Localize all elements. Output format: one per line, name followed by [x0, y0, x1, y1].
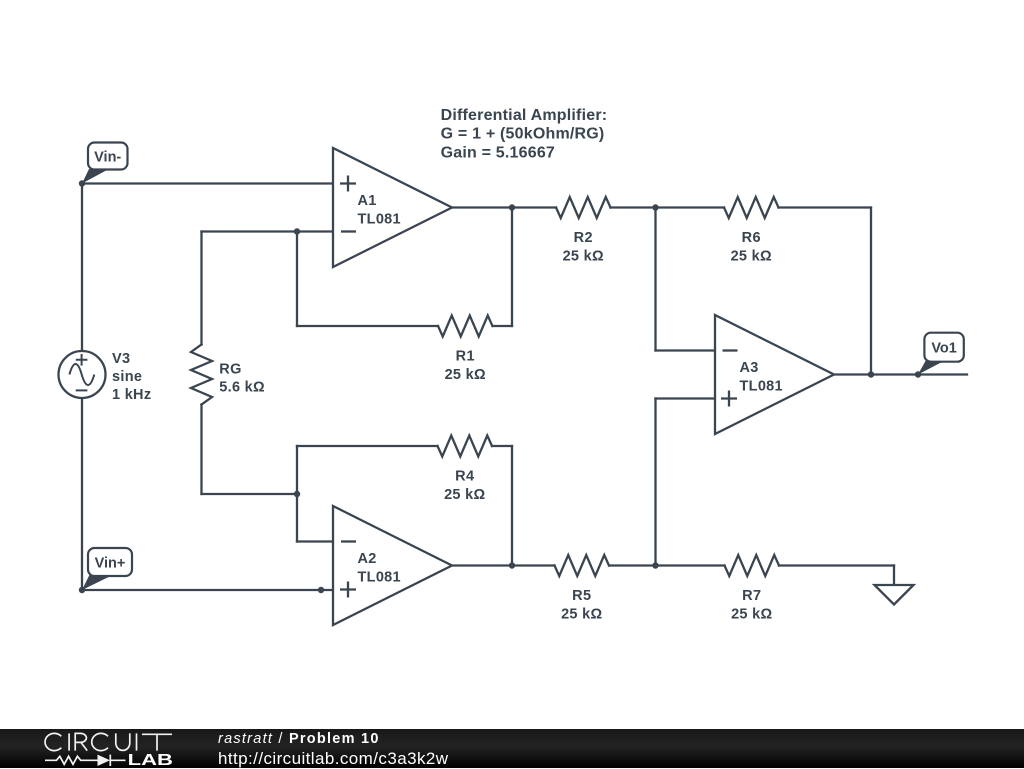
junction node A3 output / R6: [868, 371, 874, 377]
svg-text:25 kΩ: 25 kΩ: [731, 248, 772, 264]
svg-text:5.6 kΩ: 5.6 kΩ: [219, 380, 265, 396]
resistor R1 zigzag: [438, 316, 493, 337]
voltage source V3 circle: [59, 351, 106, 398]
svg-text:A1: A1: [358, 193, 377, 209]
resistor R6 zigzag: [724, 197, 779, 218]
wire Vin+ node to A2 noninverting input: [82, 589, 356, 591]
V3 plus sign: [76, 354, 88, 366]
wire R4 right lead: [492, 445, 512, 447]
wire node A1 inverting down to R1 level: [296, 232, 298, 327]
svg-text:LAB: LAB: [128, 752, 173, 768]
wire Vin- node down to V3 positive terminal: [81, 184, 83, 352]
op-amp A2 plus symbol: [340, 582, 356, 598]
op-amp A3 plus symbol: [721, 391, 737, 407]
flag Vin-: [82, 143, 128, 184]
wire node R2/R6 down to A3 inverting level: [654, 208, 656, 351]
resistor R2 zigzag: [556, 197, 611, 218]
junction node A2 noninverting wire: [318, 587, 324, 593]
CircuitLab logo: [0, 729, 200, 768]
junction node Vo1: [915, 371, 921, 377]
wire Vin- node to A1 noninverting input: [82, 182, 333, 184]
svg-text:R6: R6: [742, 230, 761, 246]
wire A1 output to R2 left lead: [452, 206, 556, 208]
op-amp A2 minus symbol: [341, 540, 356, 542]
svg-text:G = 1 + (50kOhm/RG): G = 1 + (50kOhm/RG): [441, 126, 605, 143]
op-amp A3 triangle: [715, 315, 834, 434]
svg-text:25 kΩ: 25 kΩ: [445, 367, 486, 383]
wire A2 output to R5 left lead: [452, 564, 555, 566]
wire A3 output to Vo1 end: [834, 373, 967, 375]
svg-text:RG: RG: [219, 361, 241, 377]
svg-text:25 kΩ: 25 kΩ: [444, 487, 485, 503]
wire to A3 inverting input: [656, 349, 716, 351]
svg-text:25 kΩ: 25 kΩ: [561, 606, 602, 622]
wire V3 negative terminal down to Vin+ node: [81, 398, 83, 590]
svg-text:Gain = 5.16667: Gain = 5.16667: [441, 145, 555, 162]
svg-text:Vin-: Vin-: [94, 149, 121, 165]
wire R4 feedback down to A2 output node: [511, 446, 513, 566]
resistor RG zigzag vertical: [191, 345, 212, 405]
svg-text:R7: R7: [742, 588, 761, 604]
junction node A2 output / R4: [509, 562, 515, 568]
op-amp A2 triangle: [333, 506, 452, 625]
op-amp A3 minus symbol: [723, 349, 738, 351]
svg-text:R2: R2: [574, 230, 593, 246]
wire R1 left lead: [297, 325, 438, 327]
wire R1 feedback up to A1 output node: [511, 208, 513, 327]
wire down to R5/R7 node: [654, 399, 656, 566]
op-amp A1 triangle: [333, 148, 452, 267]
svg-text:R4: R4: [455, 469, 474, 485]
svg-text:R1: R1: [456, 349, 475, 365]
svg-text:25 kΩ: 25 kΩ: [563, 248, 604, 264]
junction node R5/R7: [652, 562, 658, 568]
op-amp A1 minus symbol: [341, 230, 356, 232]
wire to A2 inverting input: [297, 540, 333, 542]
footer title: [218, 731, 380, 747]
svg-text:Vo1: Vo1: [931, 341, 957, 357]
svg-text:A2: A2: [358, 551, 377, 567]
junction node Vin+: [79, 587, 85, 593]
svg-text:R5: R5: [572, 588, 591, 604]
svg-text:Differential Amplifier:: Differential Amplifier:: [441, 107, 608, 124]
wire RG bottom to A2 inverting node: [202, 493, 298, 495]
flag Vin+: [82, 548, 132, 590]
wire RG bottom lead vertical: [200, 405, 202, 495]
wire R4 left lead: [297, 445, 438, 447]
wire R7 right lead to ground corner: [779, 564, 894, 566]
junction node A1 inverting: [294, 228, 300, 234]
footer url: [218, 749, 448, 769]
wire down to ground symbol: [893, 566, 895, 586]
svg-text:TL081: TL081: [358, 570, 401, 586]
wire R6 feedback down to A3 output node: [870, 208, 872, 375]
resistor R4 zigzag: [438, 436, 493, 457]
svg-text:TL081: TL081: [358, 212, 401, 228]
junction node A1 output / R1: [509, 204, 515, 210]
wire node up to R4 level: [296, 446, 298, 494]
resistor R7 zigzag: [725, 555, 780, 576]
wire RG top to A1 inverting input: [202, 230, 334, 232]
svg-text:V3: V3: [112, 351, 130, 367]
op-amp A1 plus symbol: [340, 176, 356, 192]
V3 sine wave: [69, 364, 94, 385]
junction node Vin-: [79, 180, 85, 186]
wire R6 right lead: [779, 206, 872, 208]
footer bar: [0, 729, 1024, 768]
resistor R5 zigzag: [555, 555, 610, 576]
ground symbol: [875, 585, 914, 605]
wire A3 noninverting input left: [656, 397, 716, 399]
flag Vo1: [918, 333, 964, 375]
svg-text:1 kHz: 1 kHz: [112, 387, 151, 403]
wire R5 right to R7 left: [609, 564, 725, 566]
wire R2 right to R6 left: [611, 206, 725, 208]
svg-text:A3: A3: [740, 360, 759, 376]
svg-text:25 kΩ: 25 kΩ: [731, 606, 772, 622]
wire RG top lead vertical: [200, 232, 202, 345]
svg-text:TL081: TL081: [740, 379, 783, 395]
wire R1 right lead: [493, 325, 513, 327]
junction node A2 inverting / RG bottom: [294, 491, 300, 497]
svg-text:Vin+: Vin+: [95, 555, 126, 571]
wire node down to A2 inverting input level: [296, 494, 298, 542]
svg-text:sine: sine: [112, 369, 142, 385]
junction node R2/R6: [652, 204, 658, 210]
V3 minus sign: [76, 389, 88, 391]
